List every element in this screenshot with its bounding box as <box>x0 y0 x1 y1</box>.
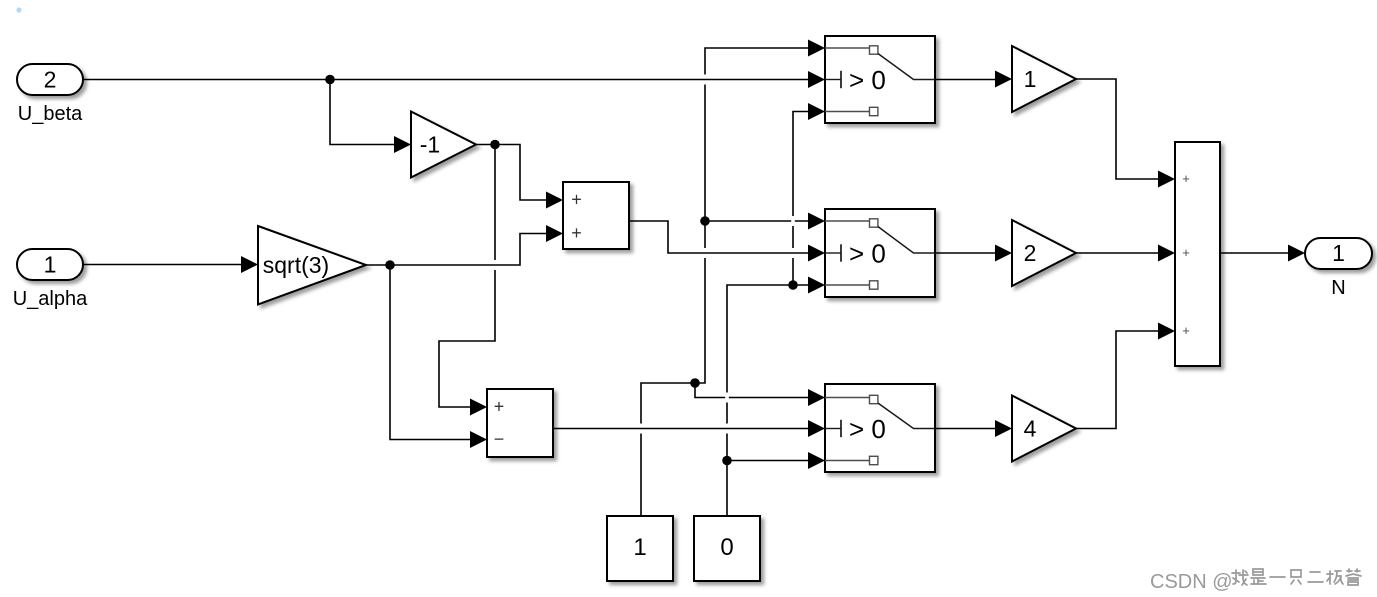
wire: S3 out to outport <box>1220 252 1289 254</box>
wire: -1 down to S2 plus <box>439 145 495 408</box>
wire: SW3 out to G4 <box>935 428 996 430</box>
char 一 <box>1270 576 1285 578</box>
wire: sqrt3 down to S2 minus <box>390 265 471 440</box>
inport 1 U_alpha <box>17 249 83 280</box>
wire: to S1 in1 <box>495 145 547 201</box>
svg-text:1: 1 <box>44 252 57 278</box>
svg-text:1: 1 <box>1332 240 1345 266</box>
svg-text:2: 2 <box>1024 240 1037 266</box>
char 我 <box>1232 570 1248 585</box>
wire: constant1 net to switch true-inputs <box>641 48 812 516</box>
svg-text:0: 0 <box>720 534 733 561</box>
svg-text:4: 4 <box>1024 416 1037 442</box>
svg-text:U_alpha: U_alpha <box>13 288 88 310</box>
gain G_sqrt3 <box>258 226 366 305</box>
svg-text:> 0: > 0 <box>849 238 886 268</box>
wire: branch to -1 gain <box>330 80 395 145</box>
wire: branch to SW3 in1 <box>695 383 812 398</box>
svg-text:+: + <box>494 397 505 417</box>
svg-text:U_beta: U_beta <box>18 103 83 125</box>
svg-text:> 0: > 0 <box>849 65 886 95</box>
wire: SW1 out to G1 <box>935 79 996 81</box>
watermark CSDN <box>1150 569 1361 593</box>
wire: G1 out to S3 in1 <box>1076 79 1159 179</box>
svg-text:> 0: > 0 <box>849 414 886 444</box>
inport 2 U_beta <box>17 64 83 95</box>
gain G2 <box>1012 220 1076 286</box>
svg-text:+: + <box>1182 245 1190 260</box>
svg-text:+: + <box>571 223 582 243</box>
arrowheads <box>394 136 411 153</box>
switch SW3 <box>825 384 935 472</box>
svg-text:1: 1 <box>1024 66 1037 92</box>
svg-text:+: + <box>1182 171 1190 186</box>
svg-text:CSDN @: CSDN @ <box>1150 571 1233 593</box>
wire: -1 out stub <box>476 144 495 146</box>
wire: constant0 net to SW1 in3 <box>727 112 812 517</box>
svg-text:1: 1 <box>633 534 646 561</box>
switch SW1 <box>825 36 935 123</box>
wire: S1 out to SW2 in2 <box>629 221 811 253</box>
svg-text:2: 2 <box>44 67 57 93</box>
char 二 <box>1308 572 1323 582</box>
char 是 <box>1251 569 1266 584</box>
char 只 <box>1291 570 1301 584</box>
switch SW2 <box>825 209 935 297</box>
svg-text:−: − <box>494 429 505 449</box>
sum S1 <box>563 182 629 249</box>
svg-text:sqrt(3): sqrt(3) <box>263 252 329 278</box>
wire: branch to SW3 in3 <box>727 460 812 462</box>
wire: U_beta main to SW1 in2 <box>83 79 812 81</box>
char 极 <box>1327 571 1343 584</box>
svg-text:-1: -1 <box>420 132 440 158</box>
switch SW3 internals <box>825 397 869 399</box>
sum S3 <box>1175 142 1220 366</box>
constant C1 <box>607 516 673 581</box>
gain G1 <box>1012 46 1076 112</box>
wire: SW2 out to G2 <box>935 252 996 254</box>
wire: branch to SW2 in1 <box>705 220 811 222</box>
svg-text:+: + <box>1182 323 1190 338</box>
wire: S2 out to SW3 in2 <box>553 428 812 430</box>
junction dots <box>325 75 335 85</box>
gain G_neg1 <box>411 112 476 178</box>
wire: G2 out to S3 in2 <box>1076 252 1159 254</box>
sum S2 <box>487 389 553 457</box>
wire: U_alpha to sqrt3 <box>83 264 242 266</box>
wire: G4 out to S3 in3 <box>1076 331 1159 429</box>
gain G4 <box>1012 396 1076 462</box>
svg-text:N: N <box>1331 277 1345 299</box>
outport N <box>1305 238 1372 269</box>
constant C0 <box>694 516 760 581</box>
switch SW1 internals <box>825 47 869 49</box>
badge dot <box>16 7 21 12</box>
wire: branch to SW2 in3 <box>793 284 811 286</box>
switch SW2 internals <box>825 220 869 222</box>
crossing gaps <box>703 75 707 85</box>
char 管 <box>1346 569 1361 585</box>
svg-text:+: + <box>571 190 582 210</box>
wire: sqrt3 out to S1 in2 <box>366 234 547 266</box>
